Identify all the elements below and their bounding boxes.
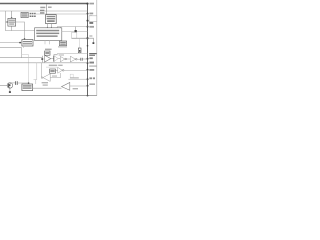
wire y79.6 short [34,79,37,81]
label marks right of U2 row2 [30,16,32,18]
label mid bottom row1 [42,82,48,83]
wire tap x5.5 [6,11,35,31]
label under A6 wire [73,88,78,89]
node pin y45.8 [87,45,89,47]
pin label y70 [89,69,94,71]
wire arrow into U1 left [6,21,7,23]
wire y62.8 long [0,62,88,64]
box F1 filter [50,69,56,73]
op-amp A6 left pointing [62,83,70,91]
node junction y42.6 [19,42,21,44]
pin label y13.6 [89,13,93,15]
capacitor blob C2 [93,42,95,44]
bus right vertical [87,3,89,96]
label marks right of U2 row1 [30,13,32,15]
label right of X1 drop [48,7,52,9]
ground pad Q1 [9,91,11,93]
wire T2 input from right [50,73,60,78]
wire U1 top input [11,11,13,18]
op-amp T2 left pointing [43,74,50,82]
node VCC pin [86,3,88,5]
label mid bottom row2 [43,84,48,85]
op-amp A5 [58,67,63,73]
wire U7 to bus [72,37,88,39]
wire vert x41.4 down to T2 bubble [40,63,42,78]
label on wire y14 [40,12,44,13]
wire amp1 input vertical [41,56,43,62]
op-amp A1 [45,55,51,62]
pin label y22.8 [89,22,93,24]
label row y46.5 middle [58,46,67,47]
frame bottom border [0,95,97,97]
box U1 sync processor [8,18,16,26]
wire y53.4 [57,52,88,54]
box U6 thermal [59,41,66,46]
wire U5 bottom stub1 [44,41,46,45]
pin label y58 [89,57,92,59]
box U4 regulator [46,15,57,24]
wire A5 out to bus [64,69,88,71]
pin label y54 dark long [89,53,96,54]
wire pin38 right L to cap [88,38,94,42]
wire U5 bottom stub2 [49,41,51,45]
transistor Q1 [7,83,13,89]
wire stub U3 bottom [23,46,25,48]
wire Q1 emitter down [9,88,11,91]
node pin y26.6 [87,26,89,28]
label above timing box [45,49,52,50]
pin label y62.5 [89,62,94,64]
node pin y58.8 [87,58,89,60]
mixer blob [75,30,77,33]
node pin y95.6 [87,95,89,97]
op-amp A2 [54,56,58,62]
capacitor C3 series [80,58,82,61]
wire switch stub [79,52,81,55]
box S1 switch [78,48,81,53]
wire y42.6 [0,42,22,44]
wire U1 bottom to y30.6 [11,26,13,31]
wire A3 out [67,58,71,60]
label 4.43MHz row [49,65,57,66]
label above y79.2 wire [70,77,79,78]
wire Q1 collector to cap [11,82,15,84]
wire y47.7 L down right [0,48,22,58]
op-amp A3 [60,56,65,61]
wire y57.7 [0,57,42,59]
pin label y78.4 [89,77,92,79]
node pin y38.2 [86,37,88,39]
wire drop from VCC to U4 top [46,4,48,14]
wire U1 out right then down to U3 [16,22,25,39]
label above A2 [54,54,58,55]
wire U4 to U5 arrow2 [50,24,52,27]
wire F1 to A5 [55,69,57,71]
wire U5 right to mixer [62,31,88,33]
box U8 delay [22,84,33,91]
box faint lower [70,74,73,78]
pin label VCC [89,3,94,5]
arrow3 into U5 top [56,27,58,29]
wire y11 [0,10,88,12]
wire A6 input from bus [70,85,88,87]
node pin y13.6 [87,13,89,15]
wire y67.1 faint [46,66,58,68]
pin label y84.4 [89,83,95,85]
wire drop to switch [79,38,81,48]
wire vert x35.8 [35,80,37,84]
wire A2 out [58,58,60,60]
node pin y63 [87,62,89,64]
node pin y79.2 [87,78,89,80]
label on wire y11 [40,10,44,11]
label left of X1 drop [40,7,45,9]
wire vert x36.8 [36,63,38,80]
wire VCC top [0,3,88,5]
wire Q1 base [0,84,9,86]
capacitor C1 [15,81,17,85]
box U7 small [72,32,77,38]
op-amp A4 [70,56,75,62]
box R1 right [89,16,97,22]
node amp1 input blob [41,58,43,60]
wire U8 out to A6 [33,87,62,89]
wire U4 to U5 arrow1 [46,24,48,27]
wire faint y54.6 down long [22,55,29,84]
pin label y26.6 [89,26,94,28]
wire C1 right [18,82,29,84]
wire y79.2 [68,78,87,80]
wire y14 [36,13,88,15]
node pin y20.6 [87,20,89,22]
wire A4 out [77,58,80,60]
frame right border [96,0,98,96]
arrow4 into U5 top [59,27,61,29]
wire C3 to bus [83,58,88,60]
node pin y69.8 [87,69,89,71]
wire y26.6 to bus [57,26,88,28]
pin label y15.8 faint [89,15,92,16]
node junction x28.6 [28,82,30,84]
wire A1 out [51,58,54,60]
box U3 cascaded [22,40,33,46]
box T1 timing [45,51,50,55]
label row y75.6 [52,75,57,76]
box U5 main processor [35,28,62,41]
pin label y36 faint [89,35,92,36]
wire mixer drop [75,27,77,33]
node pin y85.8 [87,85,89,87]
label above A3 [59,54,64,55]
box U2 top small [21,12,28,17]
pin label y66 faint long [89,65,96,66]
